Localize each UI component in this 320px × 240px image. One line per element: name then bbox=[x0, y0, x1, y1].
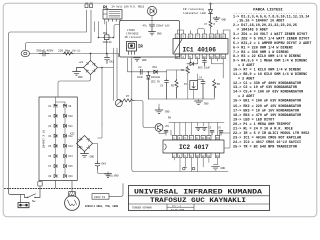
wire right rail to IC2 bbox=[220, 133, 230, 148]
svg-text:EK3 10uF: EK3 10uF bbox=[198, 67, 211, 70]
svg-text:D1: D1 bbox=[49, 105, 52, 108]
svg-text:9: 9 bbox=[196, 137, 198, 140]
resistor R6 bbox=[213, 80, 217, 98]
svg-text:= 3 ADET: = 3 ADET bbox=[238, 64, 255, 68]
svg-text:D18: D18 bbox=[153, 66, 158, 69]
svg-text:3: 3 bbox=[179, 137, 181, 140]
svg-text:EK4: EK4 bbox=[102, 163, 107, 166]
svg-text:13-> C2 = 10 nF 63V KONDANSATO: 13-> C2 = 10 nF 63V KONDANSATOR bbox=[233, 85, 298, 90]
svg-text:IR: IR bbox=[138, 46, 144, 50]
wire KZ2 right bbox=[93, 144, 98, 162]
ground bbox=[134, 58, 141, 61]
svg-text:GND: GND bbox=[142, 59, 147, 62]
ground bbox=[73, 68, 84, 76]
resistor R8 bbox=[186, 66, 189, 74]
svg-text:10nF: 10nF bbox=[137, 76, 144, 79]
relay RL box bbox=[103, 10, 122, 22]
svg-text:18-> EK4 = 470 uF 10V KONDANS: 18-> EK4 = 470 uF 10V KONDANSATOR bbox=[233, 113, 302, 118]
IC1 top pins bbox=[175, 34, 225, 39]
capacitor EK1 bbox=[105, 54, 110, 64]
svg-text:GND: GND bbox=[78, 76, 83, 79]
junction node bbox=[90, 53, 92, 55]
svg-text:= 2 ADET: = 2 ADET bbox=[238, 77, 255, 81]
svg-text:= 2 ADET: = 2 ADET bbox=[238, 95, 255, 99]
svg-text:= 1N4148 9 ADET: = 1N4148 9 ADET bbox=[237, 29, 268, 33]
wire IC1 bottom bbox=[191, 59, 224, 79]
svg-text:+24: +24 bbox=[79, 61, 84, 64]
svg-text:330nF 400V: 330nF 400V bbox=[36, 50, 54, 53]
svg-text:5: 5 bbox=[189, 36, 191, 39]
bridge KZ2 bbox=[77, 136, 93, 152]
IR section box bbox=[120, 21, 180, 58]
svg-text:3-> ZD1 = 24 VOLT 1 WATT ZENER: 3-> ZD1 = 24 VOLT 1 WATT ZENER DIYOT bbox=[233, 32, 307, 37]
wire lamp up bbox=[56, 181, 73, 192]
node out B bbox=[192, 167, 195, 170]
svg-text:1: 1 bbox=[176, 36, 178, 39]
svg-text:GND: GND bbox=[222, 19, 227, 22]
svg-text:IR receiving: IR receiving bbox=[183, 7, 204, 11]
svg-text:15: 15 bbox=[221, 36, 225, 39]
svg-text:LTM/9052: LTM/9052 bbox=[126, 31, 139, 35]
svg-text:220Volt 60Hz, 75W, 100W: 220Volt 60Hz, 75W, 100W bbox=[85, 204, 118, 208]
resistor R3 bbox=[209, 21, 212, 28]
wire bridge bottom to diode box bbox=[58, 75, 91, 98]
relay terminal 2 bbox=[90, 3, 93, 8]
capacitor EK4 bbox=[95, 161, 100, 170]
svg-text:KZ2: KZ2 bbox=[70, 133, 75, 136]
capacitor C1 330nF bbox=[39, 51, 49, 56]
node out A bbox=[183, 167, 186, 170]
svg-text:D11: D11 bbox=[69, 125, 74, 128]
dotted separation line bbox=[5, 188, 103, 190]
capacitor C4 bbox=[201, 80, 205, 100]
ground bbox=[149, 32, 156, 35]
IR receiving indicator LED circle bbox=[147, 6, 156, 15]
svg-text:25-> TR = BC 548 NPN TRANSIST: 25-> TR = BC 548 NPN TRANSISTOR bbox=[233, 145, 298, 150]
svg-text:D13: D13 bbox=[69, 145, 74, 148]
ground bbox=[213, 17, 220, 22]
svg-text:C2: C2 bbox=[139, 66, 143, 69]
ground bbox=[81, 152, 89, 158]
svg-text:R8: R8 bbox=[181, 69, 185, 72]
wires below IC2 bbox=[174, 158, 217, 172]
wire main AC line bbox=[30, 53, 119, 55]
svg-text:1N4148: 1N4148 bbox=[103, 41, 113, 44]
svg-text:D3: D3 bbox=[49, 125, 52, 128]
svg-text:Sw: Sw bbox=[32, 200, 36, 203]
array vertical wires bbox=[56, 97, 66, 176]
zener ZD1 bbox=[103, 35, 110, 40]
svg-text:C5: C5 bbox=[209, 127, 212, 130]
wire bbox=[26, 10, 92, 50]
IC1 top pin wires bbox=[178, 29, 231, 140]
svg-text:GND: GND bbox=[114, 175, 119, 178]
wire lamp socket feed bbox=[109, 184, 123, 197]
svg-text:47u: 47u bbox=[143, 25, 148, 28]
svg-text:GND: GND bbox=[221, 167, 226, 170]
svg-text:22-> IR = 5 V IR ALICI MODUL L: 22-> IR = 5 V IR ALICI MODUL LTM 9052 bbox=[233, 131, 309, 136]
svg-text:1: 1 bbox=[173, 137, 175, 140]
bridge KZ1 bbox=[84, 61, 98, 75]
svg-text:C3: C3 bbox=[160, 85, 164, 88]
svg-text:D5: D5 bbox=[49, 145, 52, 148]
svg-text:GND: GND bbox=[204, 103, 209, 106]
svg-text:C6: C6 bbox=[218, 127, 221, 130]
ground bbox=[196, 128, 202, 131]
svg-text:16-> EK2 = 220 uF 16V KONDANS: 16-> EK2 = 220 uF 16V KONDANSATOR bbox=[233, 104, 302, 109]
svg-text:D10: D10 bbox=[69, 115, 74, 118]
svg-text:7: 7 bbox=[196, 36, 198, 39]
capacitor EK3 bbox=[203, 61, 207, 67]
resistor R2 220ohm bbox=[63, 52, 73, 55]
capacitor C3 bbox=[165, 80, 169, 100]
IC2 bottom pins bbox=[172, 153, 219, 157]
wire relay pins down bbox=[94, 22, 98, 38]
svg-text:7: 7 bbox=[190, 137, 192, 140]
wire 5V rail bbox=[128, 58, 167, 72]
svg-text:indicator LED: indicator LED bbox=[183, 11, 206, 15]
svg-text:10-> R7 = 1 KILO OHM 1/4 W DIR: 10-> R7 = 1 KILO OHM 1/4 W DIRENC bbox=[233, 68, 301, 73]
svg-text:8-> R3 = 22 KILO OHM 1/4 W DIR: 8-> R3 = 22 KILO OHM 1/4 W DIRENC bbox=[233, 54, 301, 59]
svg-text:D7: D7 bbox=[49, 165, 52, 168]
svg-text:2-> D17,18,19,20,21,22,23,24,2: 2-> D17,18,19,20,21,22,23,24,25 bbox=[233, 23, 297, 28]
svg-text:1-> D1,2,3,4,5,6,7,8,9,10,11,1: 1-> D1,2,3,4,5,6,7,8,9,10,11,12,13,14 bbox=[233, 14, 309, 19]
svg-text:24 Volt 10A R.K. ROLE: 24 Volt 10A R.K. ROLE bbox=[112, 4, 145, 8]
svg-text:9: 9 bbox=[203, 36, 205, 39]
svg-text:1N4007 X 16: 1N4007 X 16 bbox=[43, 129, 46, 148]
ground bbox=[195, 101, 203, 105]
ground bbox=[105, 172, 114, 178]
svg-text:14-> C3,4 = 100 nF 63V KONDAN: 14-> C3,4 = 100 nF 63V KONDANSATOR bbox=[233, 90, 304, 95]
svg-text:24-> IC2 = 4017 CMOS 10'LU SAY: 24-> IC2 = 4017 CMOS 10'LU SAYICI bbox=[233, 140, 301, 145]
svg-text:D16: D16 bbox=[69, 175, 74, 178]
wire LED down bbox=[151, 16, 153, 23]
svg-text:IC2 4017: IC2 4017 bbox=[179, 144, 209, 151]
svg-text:GND: GND bbox=[90, 156, 95, 159]
svg-text:15-> EK1 = 100 uF 63V KONDANS: 15-> EK1 = 100 uF 63V KONDANSATOR bbox=[233, 99, 302, 104]
svg-text:D2: D2 bbox=[49, 115, 52, 118]
svg-text:D15: D15 bbox=[69, 165, 74, 168]
wire left rail down to IR box bbox=[118, 54, 120, 58]
svg-text:C4: C4 bbox=[199, 77, 203, 80]
fuse F oval bbox=[21, 50, 29, 56]
svg-text:9-> R4,5,6 = 1 MEGA OHM 1/4 W: 9-> R4,5,6 = 1 MEGA OHM 1/4 W DIRENC bbox=[233, 59, 307, 64]
svg-text:D6: D6 bbox=[49, 155, 52, 158]
svg-text:11: 11 bbox=[202, 137, 205, 140]
wire R3 down to IC1 bbox=[210, 28, 212, 34]
svg-text:220 Ohm (W-1): 220 Ohm (W-1) bbox=[58, 49, 81, 53]
wire ZD1 to AC line bbox=[106, 40, 108, 54]
IR module U bbox=[127, 42, 137, 55]
svg-text:ZD1: ZD1 bbox=[103, 32, 108, 35]
svg-text:,15,16 = 1N4007 16 ADET: ,15,16 = 1N4007 16 ADET bbox=[237, 20, 284, 24]
svg-text:D9: D9 bbox=[69, 105, 72, 108]
svg-text:D14: D14 bbox=[69, 155, 74, 158]
capacitor C5 bbox=[164, 131, 168, 133]
svg-text:47: 47 bbox=[204, 23, 208, 26]
transistor TR bbox=[155, 124, 163, 132]
svg-text:5: 5 bbox=[185, 137, 187, 140]
zener ZD2 bbox=[148, 71, 150, 73]
svg-text:220V F1: 220V F1 bbox=[94, 196, 106, 199]
svg-text:TRAFOSUZ GUC KAYNAKLI: TRAFOSUZ GUC KAYNAKLI bbox=[150, 197, 246, 205]
svg-text:21-> RL = 24 V 10 A R.K. ROLE: 21-> RL = 24 V 10 A R.K. ROLE bbox=[233, 127, 293, 132]
IC2 4017 bbox=[163, 140, 224, 153]
wires mid cluster bbox=[167, 70, 188, 80]
capacitor C2 bbox=[140, 69, 142, 74]
wires cluster to gnd bbox=[167, 79, 215, 101]
svg-text:GND: GND bbox=[157, 32, 162, 35]
ground bbox=[155, 108, 163, 114]
wire plug to switch bbox=[21, 195, 25, 203]
resistor R5 bbox=[175, 80, 178, 98]
svg-text:R6: R6 bbox=[217, 83, 221, 86]
IC1 40106 bbox=[173, 39, 228, 55]
svg-text:ZD2 5V: ZD2 5V bbox=[151, 81, 161, 84]
svg-text:7-> R2 = 330 OHM 1 W DIRENC: 7-> R2 = 330 OHM 1 W DIRENC bbox=[233, 50, 289, 55]
svg-text:220uF 16V: 220uF 16V bbox=[156, 25, 170, 28]
parts list entries bbox=[233, 14, 311, 149]
svg-text:R7: R7 bbox=[126, 95, 130, 98]
capacitor EK2 bbox=[150, 24, 155, 31]
title block bbox=[129, 186, 270, 211]
svg-text:20-> P1 = 1 MEGA OHM TRIMPOT: 20-> P1 = 1 MEGA OHM TRIMPOT bbox=[233, 122, 291, 127]
svg-text:12-> C1 = 330 nF 400V KONDANS: 12-> C1 = 330 nF 400V KONDANSATOR bbox=[233, 81, 302, 86]
wire node row bbox=[98, 25, 119, 38]
svg-text:D4: D4 bbox=[49, 135, 52, 138]
wire output bus bbox=[132, 57, 228, 172]
wire EK4 to gnd bbox=[98, 170, 109, 174]
diode D18 bbox=[154, 70, 157, 74]
svg-text:5-> KZ1,2 = 1 AMPER KOPRU DIYO: 5-> KZ1,2 = 1 AMPER KOPRU DIYOT 2 ADET bbox=[233, 41, 311, 46]
svg-text:IR receiver: IR receiver bbox=[125, 35, 143, 39]
svg-text:R: R bbox=[214, 23, 216, 26]
capacitor C6 bbox=[210, 131, 214, 136]
diode D17 bbox=[187, 62, 198, 66]
wires above IC2 bbox=[169, 123, 224, 136]
svg-text:1N4148: 1N4148 bbox=[151, 76, 161, 79]
wire to bridge bbox=[90, 54, 92, 61]
svg-text:R9: R9 bbox=[168, 117, 172, 120]
svg-text:TURKER KOYMAN: TURKER KOYMAN bbox=[132, 206, 152, 209]
svg-text:4-> ZD2 = 5 VOLT 1/4 WATT ZENE: 4-> ZD2 = 5 VOLT 1/4 WATT ZENER DIYOT bbox=[233, 37, 309, 42]
ground bbox=[202, 128, 208, 131]
fuse F1 box bbox=[38, 182, 42, 187]
resistor R7 bbox=[122, 99, 134, 102]
svg-text:EK1: EK1 bbox=[110, 61, 115, 64]
indicator circle T1 bbox=[115, 100, 122, 107]
capacitor C7 bbox=[219, 131, 223, 136]
220V outlet label box bbox=[92, 194, 109, 200]
svg-text:IC1 40106: IC1 40106 bbox=[183, 46, 217, 53]
svg-text:13: 13 bbox=[216, 36, 220, 39]
svg-text:17-> EK3 = 10 uF 16V KONDANSA: 17-> EK3 = 10 uF 16V KONDANSATOR bbox=[233, 109, 300, 114]
svg-text:13: 13 bbox=[207, 137, 210, 140]
diode array box bbox=[39, 97, 77, 181]
svg-text:+5V: +5V bbox=[165, 125, 170, 128]
svg-text:D8: D8 bbox=[49, 175, 52, 178]
wire bridge right to rail bbox=[98, 48, 114, 125]
ground bbox=[212, 165, 220, 170]
svg-text:01.09.2006: 01.09.2006 bbox=[171, 208, 185, 211]
svg-text:11-> R8,9 = 10 KILO OHM 1/4 W: 11-> R8,9 = 10 KILO OHM 1/4 W DIRENC bbox=[233, 72, 307, 77]
svg-text:19-> LED = LED DIYOT: 19-> LED = LED DIYOT bbox=[233, 118, 274, 123]
wire R7 to TR bbox=[135, 100, 156, 127]
mains plug box bbox=[18, 203, 29, 208]
relay terminal 1 bbox=[85, 3, 88, 8]
wire bbox=[9, 10, 87, 190]
svg-text:23-> IC1 = 40106 CMOS NOT KAPI: 23-> IC1 = 40106 CMOS NOT KAPILAR bbox=[233, 136, 302, 141]
svg-text:R5: R5 bbox=[171, 85, 175, 88]
diode D25 top right bbox=[209, 3, 213, 21]
svg-text:3: 3 bbox=[182, 36, 184, 39]
svg-text:15: 15 bbox=[216, 137, 219, 140]
IC1 bottom pins bbox=[175, 54, 225, 59]
svg-text:GND: GND bbox=[165, 111, 170, 114]
diodes D1-D16 rows bbox=[54, 104, 67, 107]
switch Sw bbox=[9, 189, 41, 198]
lamp bulb bbox=[65, 192, 80, 211]
trimpot P1 bbox=[190, 81, 198, 90]
wire box to KZ2 bbox=[77, 140, 80, 148]
svg-text:6-> R1 = 220 OHM 1/4 W DIRENC: 6-> R1 = 220 OHM 1/4 W DIRENC bbox=[233, 45, 293, 50]
svg-text:P1: P1 bbox=[184, 83, 188, 86]
svg-text:11: 11 bbox=[210, 36, 214, 39]
wire TR to IC2 bbox=[159, 104, 171, 135]
IC2 top pins bbox=[172, 135, 219, 139]
svg-text:UNIVERSAL INFRARED KUMANDA: UNIVERSAL INFRARED KUMANDA bbox=[134, 189, 263, 197]
